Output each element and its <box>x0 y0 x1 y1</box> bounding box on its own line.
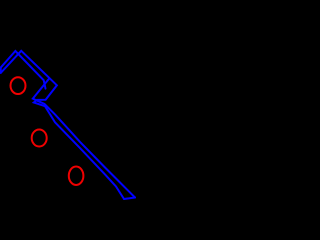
bottom end cap <box>124 198 135 200</box>
red circle C3 <box>69 167 84 186</box>
blue band edge P2: cap bottom, second peak, chevron at step, switchback, long run to bottom end <box>1 51 124 199</box>
red circle C2 <box>32 130 47 147</box>
blue band L1 switchback diagonal (crosses junction) <box>33 78 135 197</box>
red circle C1 <box>11 77 26 94</box>
blue band edge P1: cap top, first peak, 45-deg descent to step <box>1 51 46 89</box>
left end cap (vertical) <box>0 68 2 73</box>
